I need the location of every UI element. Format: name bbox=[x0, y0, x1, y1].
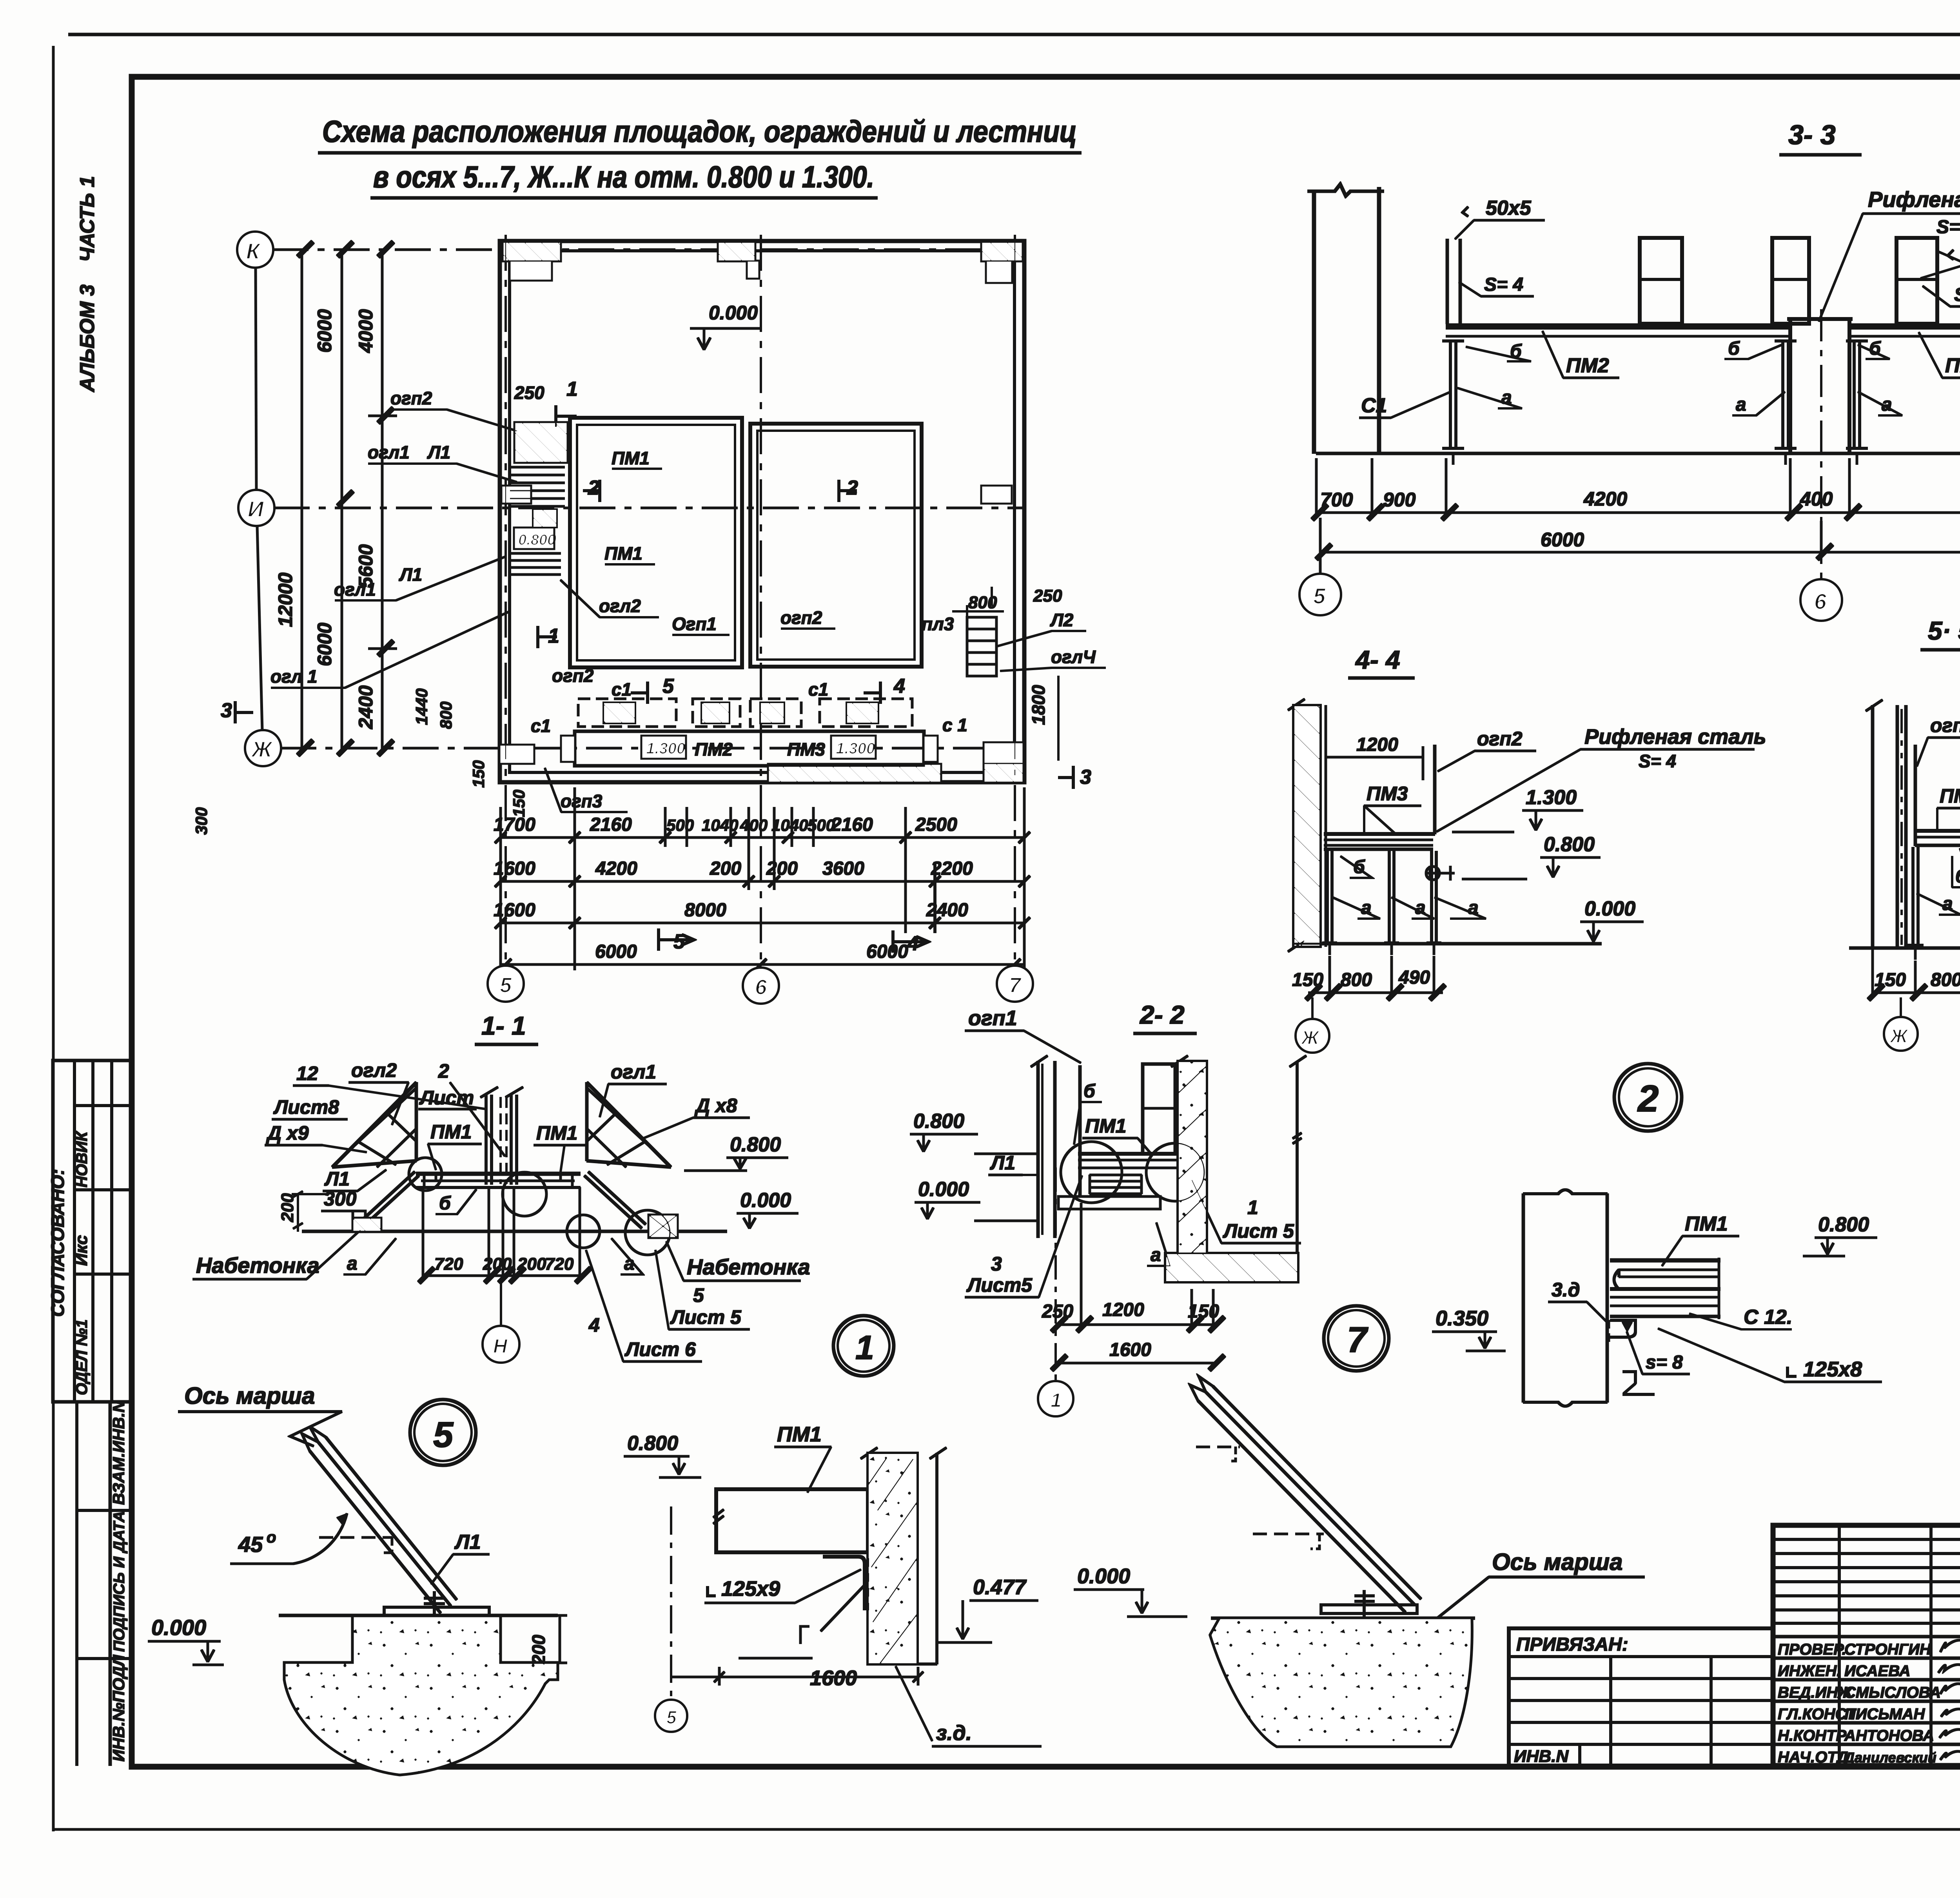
svg-text:ПРИВЯЗАН:: ПРИВЯЗАН: bbox=[1516, 1634, 1628, 1655]
svg-text:АЛЬБОМ 3 ЧАСТЬ 1: АЛЬБОМ 3 ЧАСТЬ 1 bbox=[76, 176, 99, 393]
svg-text:150: 150 bbox=[1292, 970, 1323, 990]
svg-text:б: б bbox=[1869, 338, 1881, 359]
svg-text:ПМ1: ПМ1 bbox=[604, 543, 642, 564]
svg-text:0.800: 0.800 bbox=[1544, 833, 1595, 856]
svg-text:3: 3 bbox=[991, 1253, 1002, 1275]
svg-text:4000: 4000 bbox=[355, 309, 377, 353]
svg-text:5: 5 bbox=[433, 1415, 454, 1455]
svg-text:800: 800 bbox=[1931, 970, 1960, 990]
svg-text:490: 490 bbox=[1398, 967, 1430, 988]
svg-text:4- 4: 4- 4 bbox=[1355, 645, 1400, 674]
svg-text:а: а bbox=[1151, 1245, 1161, 1265]
svg-text:ПМ3: ПМ3 bbox=[1945, 354, 1960, 377]
svg-text:пл3: пл3 bbox=[922, 614, 954, 634]
svg-text:с 1: с 1 bbox=[942, 715, 967, 735]
svg-text:0.477: 0.477 bbox=[973, 1575, 1027, 1599]
svg-text:з.д.: з.д. bbox=[936, 1721, 972, 1745]
svg-text:250: 250 bbox=[514, 383, 544, 403]
svg-text:2- 2: 2- 2 bbox=[1139, 1000, 1185, 1029]
svg-text:оглЧ: оглЧ bbox=[1051, 647, 1096, 667]
svg-text:огп2: огп2 bbox=[390, 388, 432, 408]
svg-text:НАЧ.ОТД: НАЧ.ОТД bbox=[1778, 1749, 1848, 1766]
svg-text:1600: 1600 bbox=[1109, 1340, 1151, 1360]
svg-text:в осях 5...7, Ж...К на отм. 0.: в осях 5...7, Ж...К на отм. 0.800 и 1.30… bbox=[373, 160, 874, 194]
svg-text:2500: 2500 bbox=[915, 814, 957, 835]
svg-text:с1: с1 bbox=[612, 679, 632, 700]
svg-text:огп2: огп2 bbox=[780, 607, 822, 628]
svg-text:1700: 1700 bbox=[494, 814, 535, 835]
svg-text:ПРОВЕР.: ПРОВЕР. bbox=[1778, 1641, 1846, 1658]
svg-text:С 12.: С 12. bbox=[1744, 1306, 1792, 1329]
svg-text:огл2: огл2 bbox=[351, 1059, 397, 1081]
svg-text:ИНВ.№ПОДЛ: ИНВ.№ПОДЛ bbox=[109, 1655, 128, 1762]
svg-text:огп3: огп3 bbox=[1930, 714, 1960, 736]
svg-text:Рифленая сталь: Рифленая сталь bbox=[1868, 187, 1960, 212]
svg-text:СМЫСЛОВА: СМЫСЛОВА bbox=[1844, 1684, 1941, 1701]
svg-text:ПМ1: ПМ1 bbox=[536, 1122, 577, 1144]
svg-text:5· 5: 5· 5 bbox=[1928, 616, 1960, 645]
svg-text:800: 800 bbox=[437, 702, 455, 729]
svg-text:700: 700 bbox=[1320, 489, 1353, 511]
svg-text:Огп1: Огп1 bbox=[672, 614, 717, 634]
svg-text:0.800: 0.800 bbox=[730, 1133, 781, 1156]
svg-text:0.800: 0.800 bbox=[913, 1110, 964, 1133]
svg-text:Лист5: Лист5 bbox=[966, 1274, 1033, 1296]
svg-text:б: б bbox=[1728, 338, 1740, 359]
svg-text:ПОДПИСЬ И ДАТА: ПОДПИСЬ И ДАТА bbox=[111, 1511, 128, 1652]
svg-text:5: 5 bbox=[673, 930, 685, 953]
svg-text:ПИСЬМАН: ПИСЬМАН bbox=[1844, 1706, 1925, 1723]
svg-text:с1: с1 bbox=[531, 716, 551, 736]
svg-text:ОДЕЛ №1: ОДЕЛ №1 bbox=[73, 1320, 91, 1395]
svg-text:2400: 2400 bbox=[926, 900, 968, 921]
svg-text:И: И bbox=[248, 497, 264, 521]
svg-text:ПМ3: ПМ3 bbox=[1367, 783, 1408, 805]
svg-text:6000: 6000 bbox=[1541, 529, 1584, 551]
svg-text:200: 200 bbox=[710, 858, 741, 879]
svg-text:1- 1: 1- 1 bbox=[481, 1011, 526, 1040]
svg-text:900: 900 bbox=[1383, 489, 1416, 511]
svg-text:1200: 1200 bbox=[1102, 1300, 1144, 1320]
svg-text:S= 4: S= 4 bbox=[1954, 285, 1960, 305]
svg-text:0.350: 0.350 bbox=[1436, 1307, 1488, 1330]
svg-text:500: 500 bbox=[666, 816, 694, 834]
svg-text:Л1: Л1 bbox=[324, 1168, 350, 1190]
svg-text:С1: С1 bbox=[1361, 394, 1387, 417]
svg-text:125х8: 125х8 bbox=[1803, 1358, 1862, 1381]
svg-text:2: 2 bbox=[438, 1060, 449, 1082]
svg-text:720: 720 bbox=[434, 1254, 463, 1274]
svg-text:1: 1 bbox=[566, 378, 578, 401]
svg-text:ПМ2: ПМ2 bbox=[1940, 785, 1960, 807]
svg-text:Рифленая сталь: Рифленая сталь bbox=[1584, 725, 1766, 749]
svg-text:1: 1 bbox=[1247, 1196, 1258, 1218]
svg-text:8000: 8000 bbox=[684, 900, 726, 921]
svg-text:250: 250 bbox=[1033, 586, 1062, 605]
svg-text:ВЗАМ.ИНВ.N: ВЗАМ.ИНВ.N bbox=[109, 1400, 128, 1505]
svg-text:Ось марша: Ось марша bbox=[184, 1383, 315, 1409]
svg-text:45: 45 bbox=[238, 1532, 263, 1557]
svg-text:ПМ2: ПМ2 bbox=[1566, 354, 1609, 377]
svg-text:ПМ1: ПМ1 bbox=[1685, 1213, 1728, 1235]
svg-text:o: o bbox=[267, 1529, 276, 1546]
svg-text:б: б bbox=[1955, 866, 1960, 887]
svg-text:СТРОНГИН: СТРОНГИН bbox=[1844, 1641, 1931, 1658]
svg-text:а: а bbox=[1942, 894, 1953, 914]
svg-text:3- 3: 3- 3 bbox=[1788, 120, 1836, 150]
svg-text:Ж: Ж bbox=[250, 737, 273, 761]
svg-text:огп3: огп3 bbox=[561, 791, 603, 811]
svg-text:0.000: 0.000 bbox=[151, 1615, 206, 1640]
svg-text:0.800: 0.800 bbox=[627, 1432, 678, 1455]
svg-text:ПМ1: ПМ1 bbox=[777, 1423, 822, 1446]
svg-text:4200: 4200 bbox=[1583, 488, 1627, 510]
svg-text:Н: Н bbox=[493, 1335, 508, 1357]
svg-text:огл2: огл2 bbox=[599, 596, 641, 616]
svg-text:S= 4: S= 4 bbox=[1484, 274, 1523, 295]
svg-text:2: 2 bbox=[1637, 1078, 1659, 1120]
svg-text:ПМ1: ПМ1 bbox=[430, 1121, 472, 1143]
svg-text:2: 2 bbox=[588, 477, 599, 499]
svg-text:огл 1: огл 1 bbox=[270, 666, 318, 687]
svg-text:6: 6 bbox=[755, 975, 767, 999]
svg-text:150: 150 bbox=[469, 760, 488, 788]
svg-text:огл1: огл1 bbox=[368, 442, 410, 462]
svg-text:6: 6 bbox=[1814, 589, 1827, 614]
svg-text:S= 4: S= 4 bbox=[1639, 751, 1676, 771]
svg-text:200: 200 bbox=[278, 1193, 297, 1222]
svg-text:а: а bbox=[347, 1253, 358, 1274]
svg-text:Ось марша: Ось марша bbox=[1492, 1549, 1622, 1575]
svg-text:огп1: огп1 bbox=[968, 1006, 1017, 1030]
svg-text:ПМ1: ПМ1 bbox=[1085, 1115, 1126, 1137]
svg-text:300: 300 bbox=[192, 807, 211, 835]
svg-text:1.300: 1.300 bbox=[1526, 786, 1577, 809]
svg-text:1600: 1600 bbox=[494, 858, 535, 879]
svg-text:Лист8: Лист8 bbox=[273, 1096, 339, 1118]
svg-text:125х9: 125х9 bbox=[721, 1577, 780, 1601]
svg-text:Л1: Л1 bbox=[427, 442, 450, 462]
svg-text:СОГЛАСОВАНО:: СОГЛАСОВАНО: bbox=[47, 1169, 68, 1317]
svg-text:с1: с1 bbox=[808, 679, 828, 700]
svg-text:200: 200 bbox=[766, 858, 798, 879]
svg-text:Л1: Л1 bbox=[399, 564, 422, 585]
svg-text:400: 400 bbox=[740, 816, 768, 834]
svg-text:ИСАЕВА: ИСАЕВА bbox=[1844, 1662, 1910, 1680]
svg-text:50х5: 50х5 bbox=[1486, 197, 1532, 219]
svg-text:3: 3 bbox=[1080, 766, 1091, 789]
svg-text:1040: 1040 bbox=[702, 816, 738, 834]
svg-text:0.800: 0.800 bbox=[518, 532, 555, 548]
svg-text:ПМ1: ПМ1 bbox=[612, 448, 650, 468]
svg-text:1.300: 1.300 bbox=[646, 740, 685, 757]
svg-text:Л2: Л2 bbox=[1050, 610, 1074, 630]
svg-text:7: 7 bbox=[1009, 973, 1022, 997]
svg-text:Схема расположения площадок, о: Схема расположения площадок, ограждений … bbox=[322, 114, 1077, 149]
svg-text:200: 200 bbox=[528, 1635, 549, 1665]
svg-text:ПМ3: ПМ3 bbox=[787, 739, 825, 760]
svg-text:0.000: 0.000 bbox=[740, 1189, 791, 1212]
svg-text:Лист 5: Лист 5 bbox=[670, 1306, 742, 1328]
svg-text:1600: 1600 bbox=[810, 1666, 857, 1690]
svg-text:250: 250 bbox=[1042, 1301, 1073, 1322]
svg-text:0.000: 0.000 bbox=[1584, 897, 1635, 920]
svg-text:7: 7 bbox=[1347, 1320, 1368, 1360]
svg-text:б: б bbox=[439, 1193, 451, 1214]
svg-text:Лист 5: Лист 5 bbox=[1223, 1220, 1294, 1242]
svg-text:Ж: Ж bbox=[1300, 1028, 1320, 1048]
svg-text:2200: 2200 bbox=[931, 858, 973, 879]
svg-text:5: 5 bbox=[500, 973, 512, 997]
svg-text:12: 12 bbox=[296, 1062, 318, 1084]
svg-text:800: 800 bbox=[1341, 970, 1372, 990]
svg-text:НОВИК: НОВИК bbox=[73, 1131, 91, 1187]
svg-text:Ж: Ж bbox=[1889, 1026, 1909, 1047]
svg-text:АНТОНОВА: АНТОНОВА bbox=[1844, 1727, 1934, 1744]
svg-text:ВЕД.ИНЖ: ВЕД.ИНЖ bbox=[1778, 1684, 1853, 1701]
svg-text:огп2: огп2 bbox=[1477, 728, 1523, 750]
svg-text:0.000: 0.000 bbox=[709, 302, 758, 324]
svg-text:К: К bbox=[246, 239, 261, 263]
svg-text:а: а bbox=[1361, 897, 1372, 918]
svg-text:6000: 6000 bbox=[314, 623, 336, 666]
svg-text:Л1: Л1 bbox=[990, 1152, 1015, 1174]
svg-text:Н.КОНТР: Н.КОНТР bbox=[1778, 1727, 1846, 1744]
svg-text:Д х8: Д х8 bbox=[694, 1095, 737, 1117]
svg-text:0.000: 0.000 bbox=[918, 1178, 969, 1201]
svg-text:Икс: Икс bbox=[72, 1235, 91, 1266]
svg-text:1.300: 1.300 bbox=[836, 740, 875, 757]
svg-text:ПМ2: ПМ2 bbox=[695, 739, 733, 760]
svg-text:150: 150 bbox=[1875, 970, 1906, 990]
svg-text:2: 2 bbox=[846, 477, 858, 499]
svg-text:1: 1 bbox=[855, 1329, 874, 1367]
svg-text:Л1: Л1 bbox=[454, 1531, 481, 1554]
svg-text:3600: 3600 bbox=[822, 858, 864, 879]
svg-text:Д х9: Д х9 bbox=[266, 1122, 309, 1144]
svg-text:огл1: огл1 bbox=[611, 1061, 656, 1083]
svg-text:12000: 12000 bbox=[274, 573, 296, 627]
svg-text:1800: 1800 bbox=[1028, 685, 1049, 725]
svg-text:2160: 2160 bbox=[831, 814, 873, 835]
svg-text:ИНЖЕН.: ИНЖЕН. bbox=[1778, 1662, 1841, 1680]
svg-text:1: 1 bbox=[1051, 1389, 1062, 1411]
svg-text:1200: 1200 bbox=[1356, 734, 1398, 755]
svg-text:300: 300 bbox=[324, 1188, 357, 1210]
svg-text:Набетонка: Набетонка bbox=[196, 1253, 319, 1278]
svg-text:5: 5 bbox=[666, 1707, 677, 1728]
svg-text:6000: 6000 bbox=[866, 941, 908, 962]
svg-text:огп2: огп2 bbox=[552, 665, 594, 686]
svg-text:1440: 1440 bbox=[412, 689, 431, 725]
svg-text:а: а bbox=[1736, 394, 1746, 415]
svg-text:5: 5 bbox=[662, 675, 674, 698]
svg-text:720: 720 bbox=[545, 1254, 574, 1274]
svg-text:Лист 6: Лист 6 bbox=[624, 1338, 696, 1360]
svg-text:4200: 4200 bbox=[595, 858, 637, 879]
svg-text:огл1: огл1 bbox=[334, 579, 376, 600]
svg-text:Данилевский: Данилевский bbox=[1843, 1749, 1936, 1766]
svg-text:0.000: 0.000 bbox=[1077, 1564, 1130, 1588]
svg-text:150: 150 bbox=[510, 790, 528, 817]
svg-text:Набетонка: Набетонка bbox=[687, 1254, 810, 1279]
svg-text:400: 400 bbox=[1800, 488, 1833, 510]
svg-text:3.д: 3.д bbox=[1552, 1279, 1580, 1301]
svg-text:6000: 6000 bbox=[595, 941, 637, 962]
svg-text:5: 5 bbox=[1313, 584, 1326, 608]
svg-text:Лист: Лист bbox=[419, 1087, 474, 1109]
svg-text:6000: 6000 bbox=[314, 309, 336, 353]
svg-text:4: 4 bbox=[588, 1314, 600, 1336]
svg-text:800: 800 bbox=[968, 593, 997, 612]
svg-text:s= 8: s= 8 bbox=[1646, 1352, 1683, 1373]
svg-text:S= 4: S= 4 bbox=[1936, 217, 1960, 237]
svg-text:ИНВ.N: ИНВ.N bbox=[1514, 1747, 1569, 1766]
svg-text:4: 4 bbox=[893, 675, 905, 698]
svg-text:а: а bbox=[1415, 897, 1426, 918]
svg-text:б: б bbox=[1083, 1081, 1096, 1102]
svg-text:3: 3 bbox=[221, 699, 232, 722]
svg-text:2400: 2400 bbox=[355, 685, 377, 729]
svg-text:1040: 1040 bbox=[771, 816, 808, 834]
svg-text:2160: 2160 bbox=[590, 814, 632, 835]
svg-text:0.800: 0.800 bbox=[1818, 1213, 1869, 1236]
svg-text:5: 5 bbox=[693, 1284, 704, 1306]
svg-text:1600: 1600 bbox=[494, 900, 535, 921]
